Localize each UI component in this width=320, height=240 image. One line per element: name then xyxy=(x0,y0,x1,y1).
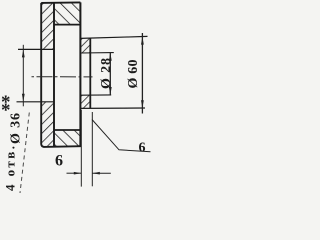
boss ring bottom (hatched) xyxy=(80,95,90,108)
dimension 60: dim line xyxy=(141,33,143,114)
dimension 60: arrow down xyxy=(141,100,144,108)
flange plate section top (hatched) xyxy=(41,3,54,50)
plate left edge xyxy=(41,3,44,147)
dimension 36: dim line xyxy=(22,45,24,107)
boss bottom edge / Ø60 extension line xyxy=(80,107,145,109)
part bottom edge xyxy=(44,145,82,148)
svg-text:Ø 36: Ø 36 xyxy=(9,113,24,144)
hole top edge with extension xyxy=(18,48,54,50)
dimension 6 bottom: right arrow line xyxy=(92,172,111,174)
svg-text:Ø 28: Ø 28 xyxy=(99,58,114,89)
centerline xyxy=(32,76,93,78)
bore bottom edge / Ø28 extension line xyxy=(80,94,111,96)
svg-text:*: * xyxy=(1,100,11,121)
svg-text:6: 6 xyxy=(139,141,146,156)
dimension 28: dim line xyxy=(109,53,111,95)
dimension 36: arrow up xyxy=(22,49,25,57)
dashed stray frame line xyxy=(20,113,29,194)
hub block bottom (hatched) xyxy=(54,130,81,146)
flange plate section bottom (hatched) xyxy=(41,102,54,147)
dimension 28: arrow up xyxy=(109,53,112,61)
hole bottom edge with extension xyxy=(17,101,55,103)
part top edge xyxy=(41,1,80,4)
boss top edge / Ø60 extension line xyxy=(80,36,147,38)
svg-text:6: 6 xyxy=(55,153,63,170)
bore top edge / Ø28 extension line xyxy=(80,52,113,54)
dimension 6 bottom: extension line left xyxy=(80,110,82,187)
dimension 6 bottom: extension line right xyxy=(91,112,93,186)
boss ring top (hatched) xyxy=(80,38,90,53)
plate right edge xyxy=(53,3,55,148)
leader line for 6 (wall) xyxy=(92,120,151,152)
hub inner edge top xyxy=(54,24,80,26)
boss right edge xyxy=(89,38,91,108)
dimension 28: arrow down xyxy=(109,87,112,95)
hub block top (hatched) xyxy=(54,3,80,25)
dimension 60: arrow up xyxy=(141,37,144,45)
svg-text:Ø 60: Ø 60 xyxy=(126,60,141,89)
dimension 36: arrow down xyxy=(22,94,25,102)
tube end face edge xyxy=(79,2,81,146)
hub inner edge bottom xyxy=(54,129,81,131)
dimension 6 bottom: left arrow line xyxy=(67,172,82,174)
